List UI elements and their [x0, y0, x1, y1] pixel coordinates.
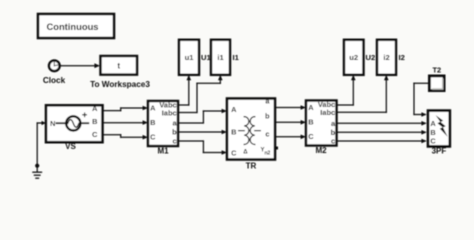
svg-text:b: b: [265, 112, 270, 121]
svg-text:u1: u1: [185, 53, 195, 62]
svg-text:B: B: [231, 128, 236, 137]
svg-text:c: c: [331, 137, 335, 146]
svg-text:A: A: [308, 103, 314, 112]
svg-text:B: B: [430, 128, 435, 137]
svg-text:B: B: [308, 118, 313, 127]
svg-text:VS: VS: [65, 142, 76, 151]
svg-text:c: c: [265, 130, 269, 139]
svg-text:C: C: [150, 133, 156, 142]
svg-text:N: N: [50, 119, 55, 128]
svg-text:M1: M1: [157, 146, 169, 155]
svg-text:M2: M2: [315, 146, 327, 155]
svg-text:b: b: [172, 128, 177, 137]
svg-text:C: C: [430, 137, 436, 146]
svg-text:3PF: 3PF: [432, 146, 447, 155]
svg-text:i2: i2: [383, 53, 389, 62]
svg-text:b: b: [331, 128, 336, 137]
svg-text:A: A: [231, 105, 237, 114]
svg-text:B: B: [150, 118, 155, 127]
svg-text:c: c: [172, 137, 176, 146]
svg-text:A: A: [430, 119, 436, 128]
svg-text:Clock: Clock: [43, 76, 66, 85]
svg-text:C: C: [231, 149, 237, 158]
svg-text:Iabc: Iabc: [320, 108, 335, 117]
svg-text:A: A: [92, 104, 98, 113]
svg-text:t: t: [117, 61, 120, 70]
svg-text:i1: i1: [217, 53, 224, 62]
svg-text:u2: u2: [349, 53, 358, 62]
svg-text:U2: U2: [366, 53, 376, 62]
svg-text:n2: n2: [265, 151, 271, 157]
svg-text:Δ: Δ: [243, 150, 248, 156]
svg-text:To Workspace3: To Workspace3: [90, 80, 150, 89]
svg-text:Iabc: Iabc: [162, 108, 177, 117]
svg-text:T2: T2: [432, 65, 441, 74]
svg-text:C: C: [308, 132, 314, 141]
svg-text:I2: I2: [399, 53, 405, 62]
svg-text:Continuous: Continuous: [46, 21, 98, 32]
svg-text:TR: TR: [246, 162, 257, 171]
svg-text:A: A: [150, 104, 156, 113]
svg-text:B: B: [92, 117, 98, 126]
svg-text:C: C: [92, 130, 98, 139]
svg-text:I1: I1: [233, 53, 240, 62]
